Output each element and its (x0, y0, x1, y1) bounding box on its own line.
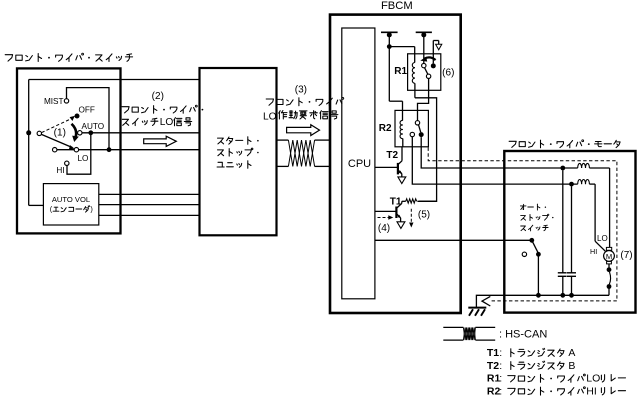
capacitor C2 (567, 186, 576, 295)
wire LO output (57, 149, 200, 151)
svg-text:A: A (568, 347, 575, 359)
legend T1 (487, 347, 576, 359)
svg-text:AUTO: AUTO (82, 122, 105, 131)
svg-text:LO: LO (78, 154, 89, 163)
front wiper switch label (5, 53, 132, 61)
relay R2 arm (419, 125, 421, 132)
contact AUTO (78, 131, 82, 135)
node common pivot (26, 130, 31, 135)
svg-text:(4): (4) (378, 223, 390, 234)
label (7) (620, 250, 632, 261)
svg-text:(3): (3) (295, 85, 307, 96)
contact LO left (53, 148, 57, 152)
svg-text:R1: R1 (394, 66, 407, 77)
label encoder (50, 205, 93, 214)
label CPU (348, 158, 371, 170)
auto-stop switch common (529, 238, 534, 243)
auto-stop switch label (520, 204, 553, 231)
svg-text:(5): (5) (418, 210, 430, 221)
svg-text::: : (499, 347, 502, 359)
wire encoder 3 (99, 214, 200, 216)
label (3) line3 (263, 111, 338, 123)
relay R2 NO contact (419, 132, 424, 137)
wire R1 coil to T1 (415, 98, 437, 202)
label (1) (54, 127, 66, 138)
label (5) (418, 210, 430, 221)
node LO wire junction (560, 166, 565, 171)
relay R2 pivot (415, 121, 419, 125)
FBCM box (330, 15, 461, 313)
label R2 (379, 123, 392, 134)
label AUTO VOL (52, 195, 90, 204)
chassis ground (468, 308, 486, 316)
power feed 2 (416, 32, 432, 37)
label OFF (79, 105, 95, 114)
label T2 (386, 150, 398, 161)
wire power2 to R1 pivot (423, 35, 425, 63)
svg-text:T2: T2 (487, 360, 499, 372)
arrow (6) output (436, 44, 442, 50)
svg-text::: : (499, 385, 502, 397)
wire AUTO output (82, 132, 200, 134)
switch pivot contact (37, 131, 41, 135)
legend R2 (487, 385, 626, 397)
svg-text:HI: HI (590, 247, 597, 256)
relay R2 NC contact (410, 132, 414, 136)
wire R2 out to motor LO (421, 137, 578, 168)
wire CAN high (277, 139, 331, 141)
auto-stop switch contact (536, 252, 541, 257)
label (2) (152, 91, 164, 102)
unit label line3 (217, 161, 251, 169)
wire motor bottom (504, 294, 609, 296)
relay R2 box (395, 110, 428, 146)
relay R1 NC contact (426, 74, 430, 78)
wire AUTO to HI link (67, 133, 91, 174)
capacitor C1 (558, 170, 567, 295)
label AUTO (82, 122, 105, 131)
label HI (56, 166, 64, 175)
motor choke coil HI (578, 179, 606, 251)
svg-text:(6): (6) (442, 68, 454, 79)
wire branch to R1 coil (389, 47, 414, 63)
relay R1 NO contact (431, 63, 436, 68)
svg-text:: HS-CAN: : HS-CAN (499, 329, 547, 341)
svg-text:T2: T2 (386, 150, 398, 161)
label (4) (378, 223, 390, 234)
dashed signal path (428, 148, 617, 301)
svg-text:HI: HI (56, 166, 64, 175)
wire R2 NC to motor HI (412, 137, 577, 184)
legend twisted pair symbol (443, 327, 495, 340)
legend R1 (487, 373, 626, 385)
front wiper switch box (17, 68, 121, 233)
node OFF (75, 114, 80, 119)
relay R1 coil (412, 63, 415, 98)
label FBCM (381, 0, 413, 12)
relay R2 coil (400, 120, 403, 146)
parking switch (607, 264, 612, 295)
wire encoder 2 (99, 204, 200, 206)
svg-text:T1: T1 (390, 197, 402, 208)
svg-text:M: M (606, 252, 612, 261)
svg-text::: : (499, 373, 502, 385)
node AUTO junction (88, 130, 93, 135)
svg-text:LO: LO (586, 373, 600, 385)
relay R1 arrow (420, 57, 435, 62)
node cap2 bottom (569, 293, 574, 298)
motor choke coil LO (578, 163, 610, 247)
svg-text:OFF: OFF (79, 105, 95, 114)
arrow (2) signal flow (144, 136, 177, 146)
node cap1 bottom (560, 293, 565, 298)
relay R1 arm (425, 68, 428, 75)
transistor T2 (375, 147, 402, 177)
switch arm dashed to OFF (42, 116, 75, 133)
arrow (3) signal flow (287, 125, 320, 136)
label (3) (295, 85, 307, 96)
CPU box (342, 28, 375, 299)
wire common vertical (29, 80, 44, 206)
resistor on T1 collector (402, 199, 437, 203)
wire encoder 1 (99, 193, 200, 195)
legend HS-CAN (499, 329, 547, 341)
svg-text:LO: LO (263, 111, 277, 122)
svg-text:CPU: CPU (348, 158, 371, 170)
label (6) (442, 68, 454, 79)
svg-text:MIST: MIST (44, 97, 64, 106)
wire power1 down (388, 35, 390, 101)
svg-text:LO: LO (160, 117, 174, 128)
relay R1 pivot (422, 63, 426, 67)
legend T2 (487, 360, 576, 372)
node HI wire junction (569, 182, 574, 187)
wire motor return to ground (476, 295, 504, 307)
svg-text:R2: R2 (379, 123, 392, 134)
ground T2 (398, 177, 406, 184)
label (2) line3 (122, 117, 191, 128)
twisted pair symbol (288, 140, 314, 166)
switch arm solid to LO (41, 134, 74, 149)
label HI (590, 247, 597, 256)
node MIST-LO junction (107, 147, 112, 152)
svg-text:): ) (90, 205, 92, 214)
arrow (5) (409, 209, 413, 228)
AUTO VOL encoder box (43, 184, 98, 225)
auto-stop switch arm (532, 240, 539, 253)
wire MIST to LO link (67, 88, 110, 150)
svg-text:T1: T1 (487, 347, 499, 359)
wire R1 output (6) (433, 41, 438, 64)
power feed 1 (381, 32, 398, 37)
label (3) line2 (266, 98, 343, 106)
label R1 (394, 66, 407, 77)
motor M1 (604, 247, 615, 264)
node power1 branch (387, 44, 392, 49)
start-stop unit box (200, 68, 277, 235)
arrow (1) rotation (72, 124, 79, 142)
svg-text:(2): (2) (152, 91, 164, 102)
contact LO arm end (74, 148, 78, 152)
svg-text:FBCM: FBCM (381, 0, 413, 12)
wire R1 NC to R2 pivot (418, 79, 429, 121)
label T1 (390, 197, 402, 208)
label (2) line2 (122, 105, 203, 113)
svg-text:(1): (1) (54, 127, 66, 138)
unit label line2 (218, 148, 259, 156)
front wiper motor box (504, 151, 635, 313)
svg-text:HI: HI (586, 385, 597, 397)
wire top output (29, 79, 200, 81)
front wiper motor label (509, 140, 620, 148)
svg-text:B: B (568, 360, 575, 372)
svg-text:LO: LO (597, 234, 608, 243)
label MIST (44, 97, 64, 106)
svg-text:AUTO VOL: AUTO VOL (52, 195, 90, 204)
unit label line1 (218, 137, 259, 145)
wire CAN low (277, 165, 331, 167)
contact MIST (64, 99, 68, 103)
node auto-stop junction (536, 293, 541, 298)
arrow return to ground (482, 296, 490, 306)
arrow (4) (378, 215, 394, 219)
transistor T1 (375, 201, 402, 222)
relay R1 box (408, 54, 441, 91)
ground T1 (397, 222, 405, 229)
svg-text::: : (499, 360, 502, 372)
svg-text:(7): (7) (620, 250, 632, 261)
label LO (78, 154, 89, 163)
wire power1 to R2 coil (389, 101, 402, 120)
wire CPU to auto-stop switch (375, 239, 532, 241)
contact HI (65, 161, 69, 165)
wire auto-stop down (537, 254, 539, 295)
auto-stop switch contact open (522, 252, 526, 256)
label LO (597, 234, 608, 243)
